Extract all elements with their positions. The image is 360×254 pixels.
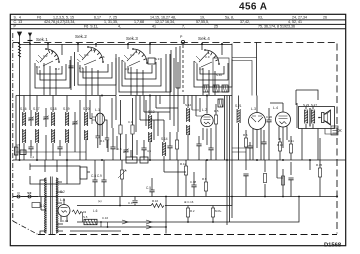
- svg-text:C.43: C.43: [62, 219, 68, 223]
- table row line 3: [10, 28, 345, 30]
- svg-text:4,: 4,: [118, 25, 121, 29]
- node P: [180, 35, 185, 44]
- svg-text:C.6: C.6: [100, 55, 105, 59]
- wire drops mid2: [108, 96, 158, 156]
- svg-text:1,4: 1,4: [36, 65, 40, 69]
- capacitor C1b: [128, 197, 138, 206]
- riser x265: [264, 160, 266, 197]
- speaker box drops: [297, 103, 318, 160]
- volume pot R8: [118, 160, 126, 197]
- resistor R11: [289, 136, 292, 160]
- resistor R16 inline: [151, 204, 164, 208]
- tick x100: [100, 222, 102, 227]
- trimmer C5: [123, 134, 128, 160]
- capacitor C30: [266, 108, 271, 136]
- svg-text:6,17: 6,17: [94, 16, 101, 20]
- loudspeaker: [318, 110, 330, 125]
- bus line y231: [70, 230, 121, 232]
- svg-text:25: 25: [214, 25, 218, 29]
- capacitor C9: [101, 160, 106, 197]
- field coil wires: [296, 90, 320, 170]
- Sek.3 wiring loops: [116, 44, 180, 95]
- svg-text:7, 25: 7, 25: [109, 16, 117, 20]
- resistor R9: [204, 160, 207, 197]
- svg-text:3,8: 3,8: [125, 67, 129, 71]
- resistor R6: [244, 130, 247, 160]
- antenna: [18, 32, 22, 42]
- svg-text:L.3: L.3: [251, 107, 256, 111]
- svg-text:(e): (e): [98, 199, 102, 203]
- svg-text:M.8+: M.8+: [215, 209, 222, 213]
- svg-text:⊕ C.16: ⊕ C.16: [184, 200, 194, 204]
- bus line y196: [13, 196, 337, 198]
- table row line 2: [10, 23, 345, 25]
- svg-text:S.19: S.19: [63, 107, 70, 111]
- small box left2: [20, 150, 26, 155]
- resistor R10: [278, 138, 281, 160]
- filter choke S25: [84, 219, 97, 224]
- svg-text:R.12: R.12: [180, 162, 186, 166]
- IF coil S14: [161, 120, 168, 160]
- svg-text:4, 52, 41: 4, 52, 41: [288, 20, 302, 24]
- svg-text:R.16: R.16: [152, 199, 158, 203]
- tiny reference labels: [16, 53, 322, 223]
- valve L1: [92, 96, 107, 146]
- svg-text:S.1: S.1: [40, 204, 45, 208]
- coil boxes Sek4 bottom: [203, 85, 228, 92]
- svg-text:S.23 S.27: S.23 S.27: [303, 103, 317, 107]
- svg-text:S.17: S.17: [33, 107, 40, 111]
- svg-text:C.38: C.38: [190, 180, 196, 184]
- capacitor C40: [288, 178, 293, 197]
- Sek.1 wiring loops: [35, 44, 70, 95]
- svg-text:L.5: L.5: [60, 198, 65, 202]
- svg-text:03,: 03,: [258, 16, 263, 20]
- capacitor C5b: [146, 178, 155, 197]
- svg-text:L.2: L.2: [202, 108, 207, 112]
- svg-text:S. 4: S. 4: [14, 16, 21, 20]
- chassis dash-dot boundary left: [12, 33, 14, 221]
- power transformer S1: [40, 160, 67, 235]
- output enclosure box: [299, 107, 335, 129]
- svg-text:S.20: S.20: [83, 107, 90, 111]
- svg-text:C.9: C.9: [205, 55, 210, 59]
- svg-text:75, 36,174, 8 51923,36: 75, 36,174, 8 51923,36: [258, 25, 295, 29]
- capacitor C16: [243, 174, 248, 197]
- arrow on y227: [146, 225, 152, 229]
- svg-text:C.4: C.4: [84, 53, 89, 57]
- svg-text:S.16: S.16: [20, 107, 27, 111]
- capacitor C13: [167, 132, 172, 160]
- resistor R5: [214, 104, 217, 140]
- wire grid left low: [16, 96, 86, 161]
- wire left vertical: [29, 44, 31, 110]
- svg-text:C.5: C.5: [117, 147, 122, 151]
- coil S19: [66, 96, 69, 161]
- coupling box Sek3: [148, 58, 155, 64]
- top bus wire: [20, 44, 233, 46]
- switch wafer Sek.1: [36, 48, 60, 66]
- bus line y227: [57, 226, 166, 228]
- svg-text:C.1: C.1: [128, 201, 133, 205]
- small box left1: [15, 147, 18, 155]
- svg-text:S.18: S.18: [50, 107, 57, 111]
- svg-text:F6 S.11,: F6 S.11,: [84, 25, 98, 29]
- svg-text:37,42,: 37,42,: [240, 20, 250, 24]
- resistor R1: [119, 100, 122, 160]
- riser x178: [177, 160, 179, 197]
- input loop rectangle: [30, 164, 90, 185]
- valve L3: [249, 96, 266, 149]
- svg-text:R.10: R.10: [277, 143, 283, 147]
- wire L6: [93, 160, 186, 213]
- svg-text:5a, 8,: 5a, 8,: [225, 16, 234, 20]
- svg-text:R.6: R.6: [243, 133, 248, 137]
- trimmer C3: [72, 112, 77, 134]
- svg-text:1,7,68: 1,7,68: [134, 20, 144, 24]
- resistor R43: [72, 210, 83, 222]
- switch wafer Sek.3: [122, 48, 148, 66]
- bus line mid: [16, 95, 116, 97]
- svg-text:24, 27,34: 24, 27,34: [292, 16, 307, 20]
- table text row 3: [14, 25, 295, 29]
- svg-text:12,17 16,34,: 12,17 16,34,: [155, 20, 175, 24]
- fuse box: [32, 203, 40, 208]
- svg-text:Sek.3: Sek.3: [126, 36, 138, 41]
- svg-text:R.1: R.1: [100, 139, 105, 143]
- wire drops mid: [140, 54, 178, 132]
- resistor R12: [184, 160, 187, 197]
- grid cap wire: [90, 100, 92, 119]
- table text row 2: [14, 20, 303, 24]
- cathode cap symbols: [96, 136, 110, 148]
- table text row 1: [14, 16, 328, 20]
- mains switch: [13, 193, 38, 198]
- rectifier valve L5: [58, 199, 70, 222]
- svg-text:C.16: C.16: [102, 216, 108, 220]
- svg-text:S.14: S.14: [161, 137, 168, 141]
- svg-text:R.2: R.2: [190, 209, 195, 213]
- svg-text:C. 13: C. 13: [14, 20, 23, 24]
- svg-text:456 A: 456 A: [239, 1, 267, 12]
- svg-text:C.5: C.5: [146, 186, 151, 190]
- capacitor C38: [191, 172, 196, 197]
- svg-text:26: 26: [323, 16, 327, 20]
- junction dots bus: [19, 43, 339, 198]
- Sek.2 wiring loops: [78, 44, 116, 95]
- svg-text:57,55,5,: 57,55,5,: [196, 20, 209, 24]
- antenna lead wire: [19, 60, 21, 160]
- output transformer S23: [305, 107, 315, 129]
- capacitor C12: [141, 140, 146, 160]
- capacitor C31: [247, 142, 252, 160]
- resistor R2: [131, 98, 134, 160]
- wire drops under L3: [216, 140, 261, 170]
- bus line y160: [13, 159, 346, 161]
- svg-text:C.3: C.3: [55, 67, 60, 71]
- trimmer C1: [28, 110, 33, 126]
- antenna coil L: [18, 42, 21, 60]
- capacitor C8: [92, 160, 97, 197]
- svg-text:L.1: L.1: [95, 108, 100, 112]
- trimmer C2: [43, 108, 48, 127]
- mechanical link dashed: [182, 45, 184, 92]
- grid stopper wires right: [269, 136, 291, 197]
- coil S12: [185, 96, 192, 161]
- svg-text:F6: F6: [37, 16, 41, 20]
- junction dots lower: [100, 196, 300, 228]
- svg-text:D1568: D1568: [324, 242, 342, 248]
- IF coupling boxes: [218, 99, 223, 107]
- svg-text:Sek.4: Sek.4: [198, 36, 210, 41]
- Sek.4 wiring loops: [194, 44, 232, 95]
- table row line 1: [10, 19, 345, 21]
- resistor R4b: [211, 208, 214, 217]
- svg-text:14,15, 16,27 48,: 14,15, 16,27 48,: [150, 16, 176, 20]
- switch wafer Sek.4: [194, 49, 220, 67]
- valve L4 output: [270, 103, 291, 148]
- IF coil S13: [148, 96, 155, 161]
- svg-text:Sek.2: Sek.2: [75, 34, 87, 39]
- svg-text:2,7: 2,7: [79, 66, 83, 70]
- inter-section wires: [68, 52, 74, 90]
- resistor R2b: [186, 208, 189, 217]
- svg-text:C.7: C.7: [130, 53, 135, 57]
- svg-text:S.9: S.9: [155, 57, 160, 61]
- coil S17: [36, 96, 39, 161]
- capacitor C21: [28, 140, 33, 156]
- arrow on y222: [122, 220, 152, 224]
- svg-text:S.40: S.40: [216, 73, 222, 77]
- wire to demodulator: [232, 43, 257, 96]
- bus line y222: [77, 197, 299, 223]
- coil S21: [235, 96, 242, 141]
- svg-text:19,: 19,: [200, 16, 205, 20]
- svg-text:R.5: R.5: [214, 109, 219, 113]
- svg-text:1,2,3,5, 5, 15: 1,2,3,5, 5, 15: [53, 16, 74, 20]
- switch wafer Sek.2: [77, 46, 104, 65]
- wire bundle vertical: [225, 44, 233, 226]
- svg-text:4,5: 4,5: [147, 149, 151, 153]
- coil S16: [23, 96, 26, 161]
- chassis dashed corner diagonal: [13, 221, 38, 235]
- chassis dashed boundary right: [336, 44, 338, 234]
- capacitor C32: [261, 130, 266, 160]
- capacitor C22: [57, 140, 62, 156]
- valve L2: [201, 96, 213, 146]
- bus line y205: [77, 197, 232, 206]
- svg-text:R.15: R.15: [316, 163, 322, 167]
- svg-text:7,: 7,: [182, 25, 185, 29]
- speaker feed wire: [325, 129, 337, 135]
- svg-text:L.4: L.4: [273, 106, 278, 110]
- svg-text:1, 31,35,: 1, 31,35,: [104, 20, 118, 24]
- svg-text:424,78,(4,27)23,34,: 424,78,(4,27)23,34,: [44, 20, 75, 24]
- svg-text:S.5: S.5: [83, 215, 88, 219]
- svg-text:41: 41: [152, 25, 156, 29]
- svg-text:S.2: S.2: [60, 190, 65, 194]
- svg-text:L.6: L.6: [93, 209, 98, 213]
- coil S18: [52, 96, 55, 161]
- resistor R15: [318, 160, 321, 197]
- svg-text:Sek.1: Sek.1: [36, 37, 48, 42]
- tick x107: [107, 222, 109, 227]
- svg-text:C.8 C.9: C.8 C.9: [91, 174, 102, 178]
- resistor R14: [281, 176, 284, 185]
- coil S20: [85, 96, 88, 161]
- svg-text:C.2: C.2: [43, 54, 48, 58]
- HT wires bottom: [120, 197, 213, 234]
- capacitor C28: [196, 136, 201, 160]
- capacitor C4: [110, 128, 115, 160]
- chassis dashed boundary top: [13, 41, 337, 43]
- resistor R3: [175, 132, 178, 160]
- chassis dashed boundary bottom: [38, 234, 337, 236]
- earth terminal: [28, 33, 33, 44]
- chassis terminal: [331, 126, 342, 135]
- small box pair top of y160: [126, 150, 148, 163]
- svg-text:4,2: 4,2: [199, 67, 203, 71]
- wire drops mid3: [184, 96, 203, 117]
- bus line mid2: [119, 95, 232, 97]
- resistor R18: [263, 174, 266, 183]
- capacitor C29: [208, 140, 213, 160]
